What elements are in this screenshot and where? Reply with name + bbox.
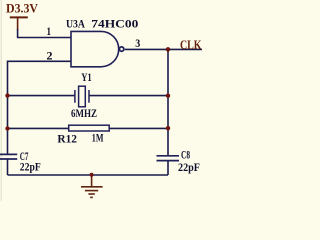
left vertical wire (lower) bbox=[7, 160, 9, 176]
junction node: left resistor row bbox=[5, 126, 9, 130]
ground bbox=[81, 175, 103, 198]
junction node: output CLK bbox=[166, 47, 171, 52]
junction node: right resistor row bbox=[166, 126, 170, 130]
junction node: right crystal row bbox=[166, 94, 170, 98]
NAND gate U3A (74HC00) bbox=[71, 31, 119, 66]
wire from power to pin 1 bbox=[18, 29, 71, 38]
power port stub bbox=[17, 17, 19, 30]
svg-text:U3A: U3A bbox=[66, 17, 85, 31]
crystal row left wire bbox=[8, 95, 75, 97]
output wire to CLK bbox=[125, 48, 202, 50]
power port bar bbox=[10, 16, 28, 18]
resistor R12 bbox=[69, 125, 110, 131]
sheet edge artifact bbox=[0, 0, 2, 201]
svg-text:Y1: Y1 bbox=[81, 70, 92, 84]
crystal Y1 bbox=[75, 86, 89, 107]
svg-text:D3.3V: D3.3V bbox=[6, 1, 39, 16]
junction node: ground bbox=[90, 173, 94, 177]
right vertical wire (upper) bbox=[167, 49, 169, 155]
svg-text:22pF: 22pF bbox=[178, 160, 200, 174]
bottom rail wire bbox=[8, 174, 169, 176]
svg-text:3: 3 bbox=[135, 36, 140, 50]
svg-text:CLK: CLK bbox=[180, 37, 202, 52]
svg-text:1M: 1M bbox=[92, 131, 104, 145]
svg-text:6MHZ: 6MHZ bbox=[71, 106, 97, 120]
capacitor C8 bbox=[157, 156, 180, 161]
svg-text:74HC00: 74HC00 bbox=[91, 17, 138, 31]
svg-text:22pF: 22pF bbox=[20, 160, 41, 174]
svg-text:2: 2 bbox=[47, 49, 53, 63]
output bubble bbox=[119, 47, 123, 51]
svg-text:1: 1 bbox=[47, 24, 52, 38]
crystal row right wire bbox=[89, 95, 168, 97]
junction node: pin2/crystal bbox=[5, 93, 9, 97]
resistor row wires bbox=[8, 127, 69, 129]
svg-text:R12: R12 bbox=[57, 131, 77, 145]
capacitor C7 bbox=[0, 154, 17, 159]
right vertical wire (lower) bbox=[167, 161, 169, 175]
wire pin 2 and left vertical (upper) bbox=[8, 61, 72, 154]
